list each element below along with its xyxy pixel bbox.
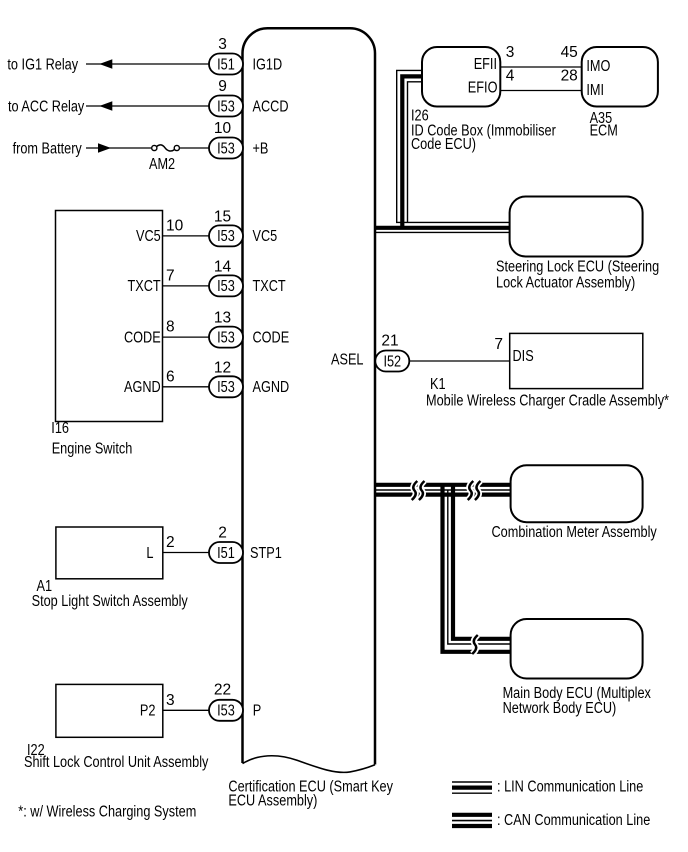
pin name VC5 [253,228,278,245]
terminal name EFIO [468,80,498,97]
steering lock ECU box [510,197,643,257]
pin number 10 [214,120,232,137]
label to IG1 Relay [7,56,78,73]
svg-text:I51: I51 [217,56,235,73]
svg-text:EFII: EFII [474,56,497,73]
svg-text:from Battery: from Battery [13,140,82,157]
pin number 15 [214,209,231,226]
svg-text:3: 3 [166,692,175,709]
svg-text:to IG1 Relay: to IG1 Relay [7,56,78,73]
svg-text:ASEL: ASEL [331,352,364,369]
CAN wire ECU to combination meter (thick upper) [376,483,511,487]
svg-text:3: 3 [218,36,227,53]
svg-text:P: P [253,703,261,720]
LIN wire branch to ID code box (thin upper) [397,70,422,222]
pin name P [253,703,261,720]
engine switch terminal name CODE [124,329,161,346]
svg-text:STP1: STP1 [250,545,282,562]
label Mobile Wireless Charger Cradle Assembly [426,393,669,410]
wire EFIO to IMI [500,90,581,92]
CAN wire ECU to combination meter (thick lower) [376,493,511,497]
connector I53 (+B) [209,138,243,159]
CAN wire branch to main body ECU (thin middle) [448,490,511,644]
pin name STP1 [250,545,282,562]
pin name IG1D [253,56,283,73]
connector I53 (CODE) [209,327,243,348]
label A1 [37,578,53,595]
fuse label AM2 [149,156,175,173]
terminal name EFII [474,56,497,73]
svg-text:L: L [146,545,153,562]
wire IG1D to IG1 Relay [86,63,209,65]
LIN wire ECU to steering lock (thin lower) [376,231,510,233]
svg-text:VC5: VC5 [253,228,278,245]
pin number 2 [218,524,227,541]
svg-text:Mobile Wireless Charger Cradle: Mobile Wireless Charger Cradle Assembly* [426,393,669,410]
svg-text:ECM: ECM [590,123,618,140]
connector I53 (AGND) [209,376,243,397]
svg-text:AGND: AGND [124,379,161,396]
engine switch I16 box [56,211,163,422]
svg-text:2: 2 [166,534,175,551]
svg-text:Steering Lock ECU (Steering: Steering Lock ECU (Steering [496,258,659,275]
svg-text:EFIO: EFIO [468,80,498,97]
wire AGND engine switch to ECU [163,386,210,388]
svg-text:K1: K1 [430,376,446,393]
svg-text:28: 28 [561,67,578,84]
pin number 13 [214,310,231,327]
svg-text:Network Body ECU): Network Body ECU) [503,700,617,717]
svg-text:CODE: CODE [253,329,290,346]
stop light switch A1 box [56,527,163,579]
pin name ASEL [331,352,364,369]
svg-text:: CAN Communication Line: : CAN Communication Line [497,812,650,829]
svg-text:Lock Actuator Assembly): Lock Actuator Assembly) [496,274,635,291]
combination meter assembly box [511,465,643,522]
svg-text:13: 13 [214,310,231,327]
svg-text:7: 7 [166,267,175,284]
pin name CODE [253,329,290,346]
label A35 [590,110,613,127]
engine switch pin 6 (AGND) [166,368,175,385]
CAN wire branch to main body ECU (outer thick) [443,483,511,652]
svg-text:*: w/ Wireless Charging System: *: w/ Wireless Charging System [18,803,196,820]
arrow from Battery [98,143,111,153]
svg-text:CODE: CODE [124,329,161,346]
svg-text:14: 14 [214,259,232,276]
engine switch terminal name VC5 [136,228,161,245]
label I16 [51,420,69,437]
connector I53 (VC5) [209,225,243,246]
svg-text:I53: I53 [217,329,235,346]
shift lock control unit I22 box [56,684,163,737]
LIN wire branch to ID code box (thick) [402,76,422,227]
wire TXCT engine switch to ECU [163,285,210,287]
label ECM [590,123,618,140]
svg-text:12: 12 [214,359,231,376]
wire break mark pair on CAN near ECU [412,481,425,500]
svg-text:I51: I51 [217,545,235,562]
pin number 21 [381,332,398,349]
pin number 12 [214,359,231,376]
svg-text:ACCD: ACCD [253,98,289,115]
legend CAN text [497,812,650,829]
pin number 45 (IMO) [561,44,578,61]
svg-text:I53: I53 [217,703,235,720]
charger cradle pin 7 [494,336,503,353]
svg-text:VC5: VC5 [136,228,161,245]
engine switch pin 7 (TXCT) [166,267,175,284]
svg-text:Combination Meter Assembly: Combination Meter Assembly [492,524,657,541]
svg-text:Shift Lock Control Unit Assemb: Shift Lock Control Unit Assembly [24,754,209,771]
svg-text:I16: I16 [51,420,69,437]
stop light switch terminal name L [146,545,153,562]
svg-text:8: 8 [166,319,175,336]
svg-text:10: 10 [214,120,232,137]
label K1 [430,376,446,393]
connector I53 (TXCT) [209,275,243,296]
svg-text:3: 3 [506,44,515,61]
svg-text:: LIN Communication Line: : LIN Communication Line [497,779,643,796]
pin number 4 (EFIO) [506,67,515,84]
svg-text:IMO: IMO [586,58,610,75]
wire CODE engine switch to ECU [163,336,210,338]
svg-text:to ACC Relay: to ACC Relay [8,98,84,115]
svg-text:TXCT: TXCT [128,278,162,295]
wire P shift lock to ECU [163,709,209,711]
svg-text:I53: I53 [217,98,235,115]
connector I51 (IG1D) [209,54,243,75]
label Engine Switch [52,441,133,458]
wire break mark on CAN near main body ECU [472,635,478,654]
svg-text:I53: I53 [217,379,235,396]
label Certification ECU [228,778,393,809]
ID code box I26 (immobiliser code ECU) [422,47,500,107]
svg-text:9: 9 [218,78,227,95]
LIN wire ECU to steering lock (thick) [376,226,510,230]
terminal name DIS [513,348,534,365]
pin number 3 [218,36,227,53]
main body ECU box [511,619,643,679]
stop light switch pin 2 [166,534,175,551]
svg-text:Code ECU): Code ECU) [411,136,476,153]
svg-text:+B: +B [253,140,269,157]
svg-text:2: 2 [218,524,227,541]
label Steering Lock ECU [496,258,659,291]
label Stop Light Switch Assembly [32,593,188,610]
terminal name IMO [586,58,610,75]
svg-text:6: 6 [166,368,175,385]
svg-text:AM2: AM2 [149,156,175,173]
label from Battery [13,140,82,157]
wire ACCD to ACC Relay [86,105,209,107]
svg-text:Stop Light Switch Assembly: Stop Light Switch Assembly [32,593,188,610]
wire +B from Battery [86,147,209,149]
arrow to IG1 Relay [99,59,112,69]
svg-text:I52: I52 [383,353,401,370]
label ID Code Box [411,122,556,153]
svg-text:I53: I53 [217,278,235,295]
connector I53 (ACCD) [209,96,243,117]
CAN wire branch to main body ECU (inner thick) [453,483,511,639]
engine switch pin 8 (CODE) [166,319,175,336]
pin number 3 (EFII) [506,44,515,61]
wire ASEL to wireless charger DIS [410,360,510,362]
svg-text:AGND: AGND [253,379,290,396]
pin name ACCD [253,98,289,115]
pin number 28 (IMI) [561,67,578,84]
legend CAN symbol [452,815,492,826]
svg-text:ECU Assembly): ECU Assembly) [228,792,317,809]
CAN wire ECU to combination meter (thin middle) [376,489,511,491]
pin name +B [253,140,269,157]
svg-text:4: 4 [506,67,515,84]
wire break mark pair on CAN near combination meter [468,481,481,500]
svg-text:IG1D: IG1D [253,56,283,73]
engine switch terminal name AGND [124,379,161,396]
svg-text:DIS: DIS [513,348,534,365]
svg-text:IMI: IMI [586,82,604,99]
footnote wireless charging [18,803,196,820]
fuse AM2 [152,145,180,151]
label I22 [27,742,45,759]
pin name AGND [253,379,290,396]
svg-text:I53: I53 [217,228,235,245]
connector I53 (P) [209,700,243,721]
svg-text:TXCT: TXCT [253,278,287,295]
pin number 22 [214,682,231,699]
svg-text:I53: I53 [217,140,235,157]
svg-text:10: 10 [166,217,184,234]
legend LIN text [497,779,643,796]
label Shift Lock Control Unit Assembly [24,754,209,771]
wire EFII to IMO [500,66,581,68]
terminal name IMI [586,82,604,99]
LIN wire branch to ID code box (thin lower) [408,82,423,223]
svg-text:21: 21 [381,332,398,349]
svg-text:22: 22 [214,682,231,699]
ECU U1: Certification ECU (Smart Key ECU Assembly) body [243,28,376,772]
connector I51 (STP1) [209,542,243,563]
pin number 14 [214,259,232,276]
shift lock terminal name P2 [140,703,156,720]
wire VC5 engine switch to ECU [163,235,210,237]
shift lock pin 3 [166,692,175,709]
legend LIN symbol [452,782,492,793]
LIN wire ECU to steering lock (thin upper) [396,221,510,223]
engine switch pin 10 (VC5) [166,217,184,234]
svg-text:15: 15 [214,209,231,226]
ECM A35 box [582,47,658,107]
mobile wireless charger cradle K1 box [510,333,643,388]
arrow to ACC Relay [99,101,112,111]
connector I52 (ASEL) [375,351,409,372]
pin number 9 [218,78,227,95]
svg-text:Engine Switch: Engine Switch [52,441,133,458]
svg-text:P2: P2 [140,703,156,720]
engine switch terminal name TXCT [128,278,162,295]
label Combination Meter Assembly [492,524,657,541]
pin name TXCT [253,278,287,295]
label I26 [411,108,429,125]
label Main Body ECU [503,685,651,717]
svg-text:7: 7 [494,336,503,353]
svg-text:45: 45 [561,44,578,61]
label to ACC Relay [8,98,84,115]
wire STP1 stop light switch to ECU [163,552,209,554]
